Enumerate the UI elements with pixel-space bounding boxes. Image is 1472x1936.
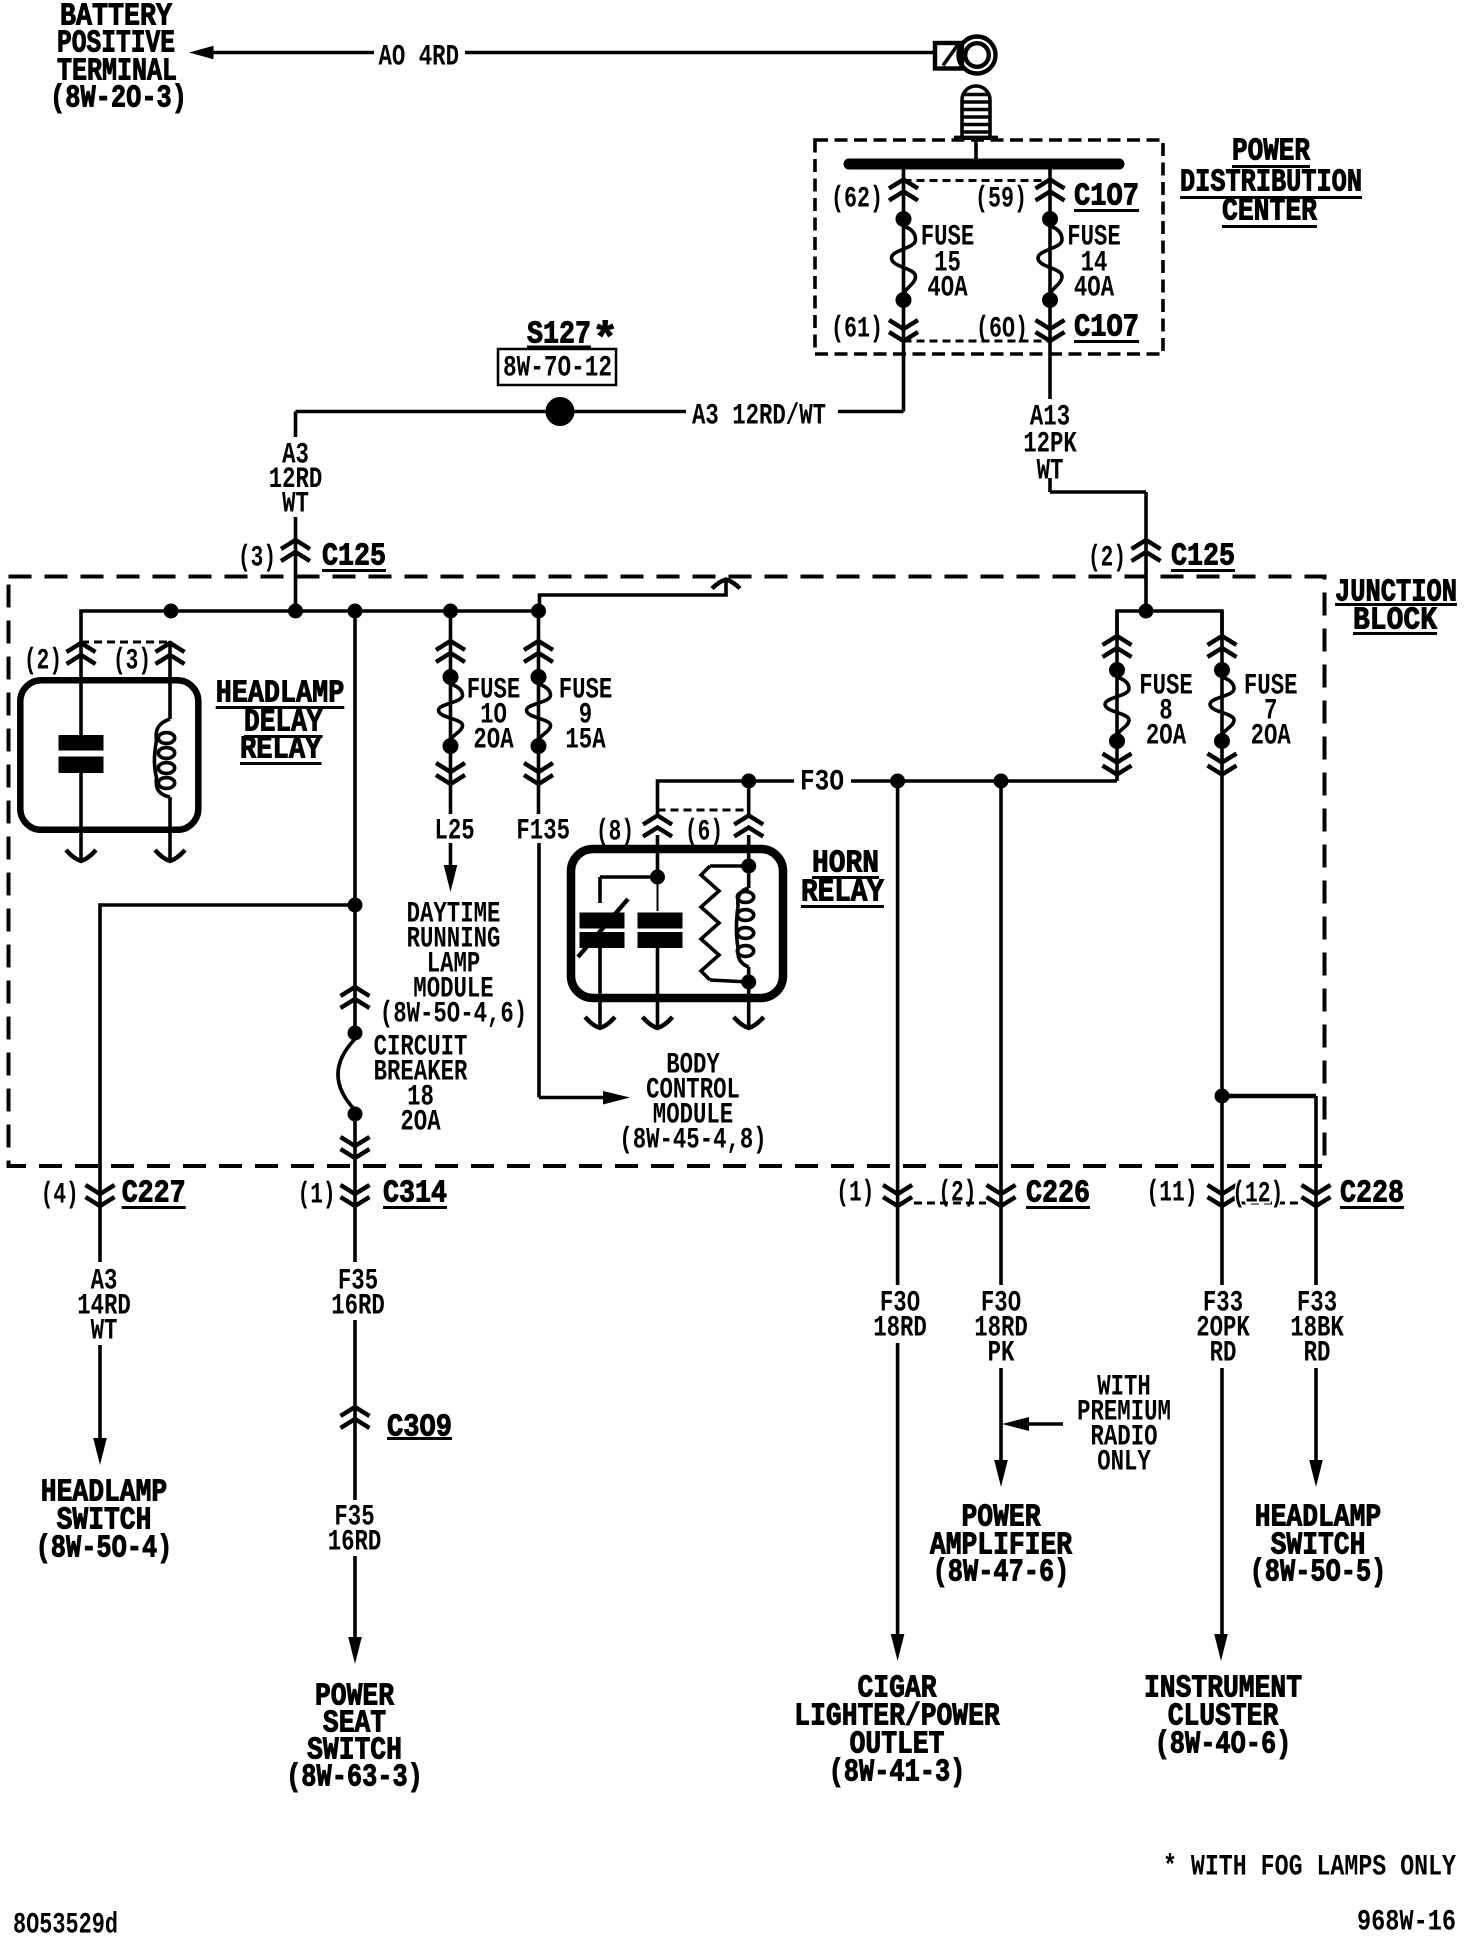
wire label F33 18BK RD [1290,1286,1344,1369]
svg-text:(8W-2O-3): (8W-2O-3) [50,82,187,117]
svg-text:WT: WT [91,1314,118,1347]
arrow to headlamp switch [93,1438,107,1465]
dashed connector line [81,641,170,644]
connector label C227 [122,1177,186,1212]
svg-text:968W-16: 968W-16 [1357,1905,1456,1936]
svg-text:(8W-5O-5): (8W-5O-5) [1250,1556,1387,1591]
wire label A13 12PK WT [1023,400,1077,487]
circuit breaker label [374,1030,468,1138]
connector pin out of fuse 10 [436,763,465,784]
fuse 14 label [1067,220,1121,304]
power seat switch label [286,1680,423,1796]
svg-text:PK: PK [988,1336,1015,1369]
connector label C314 [383,1177,447,1212]
reference box 8W-70-12 [498,349,616,385]
wire: rail to fuse 10 to L25 [449,611,453,867]
svg-text:L25: L25 [435,814,475,847]
wire: bus bar to fuse 15 to A3 feed [902,169,906,412]
svg-text:(8W-47-6): (8W-47-6) [933,1556,1070,1591]
connector label C107 (top) [1074,180,1139,215]
circuit breaker 18 [338,1026,362,1121]
fuse 8 label [1139,669,1193,752]
arrow to junction block boundary [712,580,740,589]
svg-text:(8W-45-4,8): (8W-45-4,8) [619,1123,766,1156]
fuse 10 [439,670,463,754]
wire: rail to circuit breaker [353,611,357,1038]
eyelet terminal at PDC stud [935,37,996,74]
horn relay movable contact arm [578,899,628,957]
svg-text:(59): (59) [975,182,1027,215]
svg-text:2OA: 2OA [400,1105,441,1138]
svg-text:(8W-4O-6): (8W-4O-6) [1155,1728,1292,1763]
connector label C309 [387,1411,452,1446]
dashed connector line C107 top [904,179,1051,182]
svg-text:ONLY: ONLY [1097,1445,1151,1478]
connector C228 pin 12 [1302,1185,1331,1206]
splice S127 label [527,316,618,366]
svg-text:WT: WT [282,487,309,520]
svg-text:F135: F135 [516,814,570,847]
arrow: contact output continues [66,850,96,861]
svg-text:(8): (8) [596,815,634,848]
connector C125 pin 2 [1132,540,1161,561]
svg-text:2OA: 2OA [1146,719,1187,752]
arrow to cigar lighter [891,1634,905,1661]
wire: contact output left [598,948,602,1029]
dashed connector line [658,809,749,812]
svg-text:F3O: F3O [800,765,844,798]
node: C125 pin2 junction [1139,604,1153,618]
connector C107 pin 59 [1036,180,1065,201]
connector C314 pin 1 [341,1185,370,1206]
body control module label [619,1048,766,1156]
connector pin (3) [156,643,185,664]
wire A3 down to C125 [294,412,298,612]
wire label A3 12RD WT [269,438,323,520]
headlamp switch right label [1250,1501,1387,1591]
arrow to power seat switch [348,1637,362,1664]
arrow to battery positive terminal [189,46,214,59]
svg-text:(62): (62) [831,182,883,215]
arrow to power amplifier [994,1460,1008,1487]
connector pins out of circuit breaker [341,1137,370,1158]
fuse 7 [1210,663,1234,749]
wire label F35 16RD [331,1264,385,1322]
power distribution center label [1180,135,1362,230]
connector pin out of fuse 7 [1208,754,1237,775]
svg-text:4OA: 4OA [927,271,968,304]
node: F33 branch junction [1215,1089,1229,1103]
premium radio note [1077,1370,1171,1478]
svg-text:(2): (2) [938,1176,976,1209]
power amplifier label [930,1501,1072,1591]
svg-text:(8W-63-3): (8W-63-3) [286,1761,423,1796]
fuse 15 [892,212,916,308]
connector C107 pin 60 [1036,320,1065,341]
wire: feed to upper contact [657,884,659,911]
wire A3 to headlamp switch [98,1345,102,1440]
premium radio note arrow [1002,1417,1063,1431]
splice S127 [546,398,574,426]
arrow: coil output continues [155,850,185,861]
svg-text:(6): (6) [685,815,723,848]
horn relay label [801,847,884,911]
svg-text:(12): (12) [1232,1177,1283,1210]
connector label C125 [1171,540,1235,575]
fuse 14 [1038,212,1062,308]
headlamp delay relay box [20,680,198,830]
svg-text:(2): (2) [1088,541,1126,574]
svg-text:AO 4RD: AO 4RD [379,40,460,73]
svg-text:(4): (4) [41,1178,79,1211]
svg-text:(8W-5O-4): (8W-5O-4) [36,1532,173,1567]
arrow to headlamp switch right [1309,1460,1323,1487]
wire F30 net [658,781,1118,814]
wire A0 4RD from battery to eyelet [213,51,936,55]
connector label C107 (bottom) [1074,311,1139,346]
dashed connector line C226 [914,1202,986,1205]
connector pin (2) [67,643,96,664]
connector pin into fuse 7 [1208,636,1237,657]
node junction at breaker tap [348,898,362,912]
wire: rail to fuse 9 to F135 [539,611,605,1098]
wire: relay contact output [79,773,83,862]
svg-text:(6O): (6O) [976,312,1028,345]
connector pin into fuse 8 [1103,636,1132,657]
arrow to daytime running lamp module [444,865,458,892]
fuse 9 label [559,673,613,756]
svg-text:15A: 15A [565,723,606,756]
arrow to instrument cluster [1214,1634,1228,1661]
wire: branch to C228 pin 12 [1222,1096,1316,1461]
svg-text:(3): (3) [113,644,151,677]
fuse 15 label [921,220,975,304]
fuse 7 label [1244,669,1298,752]
wire: fuse 7 branch down to C228 [1220,611,1224,1638]
svg-text:(61): (61) [831,312,883,345]
connector C107 pin 61 [889,320,918,341]
svg-text:(8W-41-3): (8W-41-3) [829,1756,966,1791]
wire: right rail [1117,611,1222,636]
wire: branch to BCM feed arrow [540,581,727,611]
svg-text:(2): (2) [24,644,62,677]
svg-text:8W-7O-12: 8W-7O-12 [503,351,612,384]
svg-text:18RD: 18RD [873,1311,927,1344]
wire label F35 16RD [328,1500,382,1558]
svg-text:(1): (1) [836,1176,874,1209]
svg-text:8O53529d: 8O53529d [13,1908,118,1936]
svg-text:WT: WT [1037,454,1064,487]
connector C226 pin 2 [987,1185,1016,1206]
wire: tap to C227 [100,905,355,1262]
connector C309 [341,1407,370,1428]
connector label C226 [1026,1177,1090,1212]
svg-text:RD: RD [1304,1336,1331,1369]
connector horn relay pin 8 [643,816,672,837]
wire label F30 18RD PK [974,1286,1028,1369]
wire A3 12RD/WT horizontal [296,410,904,414]
headlamp delay relay pin 2 wire [79,641,83,736]
connector pin into fuse 9 [524,641,553,662]
svg-text:* WITH FOG LAMPS ONLY: * WITH FOG LAMPS ONLY [1163,1850,1456,1883]
dashed connector line C107 bottom [904,340,1051,343]
wire: fuse 8 branch [1115,611,1119,781]
headlamp delay relay contact [59,736,103,773]
wire: pin 6 into relay [747,835,751,866]
svg-text:16RD: 16RD [328,1525,382,1558]
svg-text:CENTER: CENTER [1222,195,1317,230]
wire: coil output [747,982,751,1028]
battery positive terminal label [50,0,187,117]
node: rail junctions [164,604,546,618]
fuse 10 label [467,673,521,756]
instrument cluster label [1144,1672,1302,1763]
svg-text:C3O9: C3O9 [387,1411,452,1446]
headlamp delay relay label [216,677,345,768]
arrow to body control module [603,1091,630,1105]
connector C125 pin 3 [281,540,310,561]
dashed connector line C228 [1238,1202,1302,1205]
connector pin out of fuse 9 [524,763,553,784]
wire label F33 20PK RD [1196,1286,1250,1369]
svg-text:(8W-5O-4,6): (8W-5O-4,6) [380,997,527,1030]
power distribution center box [815,140,1163,354]
horn relay coil [737,859,756,989]
connector pin into fuse 10 [436,641,465,662]
connector label C228 [1340,1177,1404,1212]
wire: pin 8 into relay [656,835,660,877]
fuse 8 [1105,663,1129,749]
headlamp switch label [36,1476,173,1567]
wire F35 to C309 [353,1320,357,1500]
connector pin out of fuse 8 [1103,754,1132,775]
wire F30 to cigar lighter [896,781,900,1636]
wire: relay coil output [168,797,172,861]
headlamp delay relay pin 3 wire [168,641,172,719]
cigar lighter label [794,1672,999,1791]
junction block label [1335,576,1457,639]
horn relay contact feed [600,870,665,903]
svg-text:4OA: 4OA [1074,271,1115,304]
svg-text:16RD: 16RD [331,1289,385,1322]
horn relay resistor [701,866,749,982]
node F30 junctions [742,774,1008,788]
horn relay box [571,849,783,998]
connector label C125 [322,540,386,575]
connector pins into circuit breaker [341,987,370,1008]
svg-text:A3 12RD/WT: A3 12RD/WT [692,399,826,432]
wire label A3 14RD WT [77,1264,131,1347]
wire label F30 18RD [873,1286,927,1344]
connector C227 pin 4 [86,1185,115,1206]
svg-text:2OA: 2OA [473,723,514,756]
stud (bolt) into power distribution center [954,86,998,159]
arrow: output continues [734,1017,764,1028]
wire: bus bar to fuse 14 to A13 [1050,169,1146,611]
PDC bus bar [849,159,1119,170]
svg-text:(3): (3) [238,541,276,574]
arrow: output continues [585,1017,615,1028]
wire to power seat switch [353,1556,357,1638]
wire F30 to power amplifier [999,781,1003,1461]
connector C228 pin 11 [1208,1185,1237,1206]
wire: junction block left feed rail [81,611,539,641]
horn relay fixed contacts [580,913,682,948]
svg-text:(11): (11) [1147,1176,1198,1209]
fuse 9 [527,670,551,754]
daytime running lamp module label [380,897,527,1030]
connector C226 pin 1 [883,1185,912,1206]
svg-text:POWER: POWER [1232,135,1310,170]
svg-text:(1): (1) [298,1178,336,1211]
connector C107 pin 62 [889,180,918,201]
junction block box [9,577,1325,1167]
wire: contact output middle [656,948,660,1029]
svg-text:2OA: 2OA [1251,719,1292,752]
svg-text:RD: RD [1210,1336,1237,1369]
headlamp delay relay coil [154,719,174,797]
arrow: output continues [643,1017,673,1028]
connector horn relay pin 6 [734,816,763,837]
